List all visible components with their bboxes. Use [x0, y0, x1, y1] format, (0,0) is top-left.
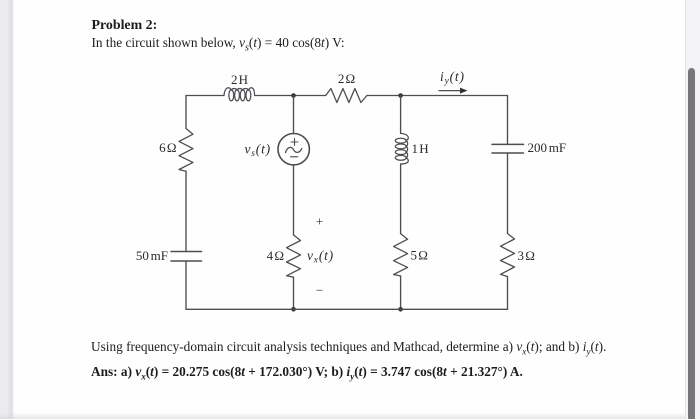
- node D (bottom of 5ohm): [398, 307, 403, 312]
- label 6ohm: [159, 140, 176, 155]
- wire source branch middle: [293, 165, 295, 235]
- bottom edge shade: [0, 413, 700, 419]
- resistor R3 4ohm: [287, 235, 301, 277]
- svg-text:200mF: 200mF: [528, 140, 567, 155]
- label vs(t): [245, 142, 271, 160]
- label 5ohm: [411, 248, 428, 263]
- wire right branch middle: [507, 153, 509, 233]
- inductor L2 1H (vertical): [395, 133, 408, 164]
- answer line: [91, 364, 523, 382]
- wire 1H branch lower: [400, 276, 402, 309]
- svg-text:5Ω: 5Ω: [411, 248, 428, 263]
- wire top between R2 and node B: [367, 95, 508, 97]
- node B (top of 1H): [398, 93, 403, 98]
- label plus vx: [316, 214, 323, 229]
- wire top between L1 and node A: [255, 95, 326, 97]
- svg-text:vx(t): vx(t): [307, 248, 334, 266]
- label 1H: [412, 141, 429, 156]
- inductor L1 2H: [224, 88, 255, 101]
- wire top-left segment: [186, 95, 224, 97]
- resistor R5 3ohm: [501, 233, 515, 277]
- svg-text:iy(t): iy(t): [440, 69, 465, 87]
- svg-text:50mF: 50mF: [136, 248, 168, 263]
- svg-text:+: +: [316, 214, 323, 229]
- node A (top of source): [291, 93, 296, 98]
- capacitor C2 200mF: [492, 144, 524, 153]
- wire 1H branch upper: [400, 96, 402, 134]
- problem statement line: [92, 35, 345, 54]
- label vx(t): [307, 248, 334, 266]
- label 4ohm: [267, 248, 284, 263]
- svg-text:−: −: [316, 283, 323, 298]
- svg-text:2Ω: 2Ω: [338, 71, 355, 86]
- resistor R1 6ohm: [179, 129, 193, 172]
- svg-text:vs(t): vs(t): [245, 142, 271, 160]
- wire source branch lower: [293, 277, 295, 309]
- resistor R4 5ohm: [394, 234, 408, 276]
- scrollbar thumb: [688, 68, 695, 419]
- heading: Problem 2: [92, 18, 158, 34]
- wire 1H branch middle: [400, 164, 402, 234]
- svg-text:4Ω: 4Ω: [267, 248, 284, 263]
- label 50mF: [136, 248, 168, 263]
- wire bottom rail: [186, 308, 508, 310]
- label minus vx: [316, 283, 323, 298]
- source U1 vs(t) circle: [278, 134, 309, 165]
- wire left branch middle: [185, 171, 187, 251]
- svg-text:2H: 2H: [231, 72, 248, 87]
- label 3ohm: [518, 248, 535, 263]
- source sine mark: [286, 147, 302, 152]
- node C (bottom of 4ohm): [291, 307, 296, 312]
- svg-text:1H: 1H: [412, 141, 429, 156]
- label iy(t): [440, 69, 465, 87]
- wire left branch lower: [185, 261, 187, 309]
- resistor R2 2ohm: [326, 89, 367, 103]
- svg-text:6Ω: 6Ω: [159, 140, 176, 155]
- svg-text:3Ω: 3Ω: [518, 248, 535, 263]
- label 2ohm: [338, 71, 355, 86]
- wire right branch upper: [507, 96, 509, 145]
- source plus mark: [291, 139, 298, 146]
- wire source branch upper: [293, 96, 295, 134]
- current arrow iy(t): [439, 88, 468, 94]
- label 2H: [231, 72, 248, 87]
- wire right branch lower: [507, 277, 509, 310]
- label 200mF: [528, 140, 567, 155]
- left gray page-edge strip: [0, 0, 14, 419]
- capacitor C1 50mF: [171, 252, 202, 262]
- source minus mark: [291, 156, 298, 158]
- question paragraph: [91, 339, 606, 357]
- scrollbar track: [685, 0, 700, 419]
- wire left branch upper: [185, 96, 187, 129]
